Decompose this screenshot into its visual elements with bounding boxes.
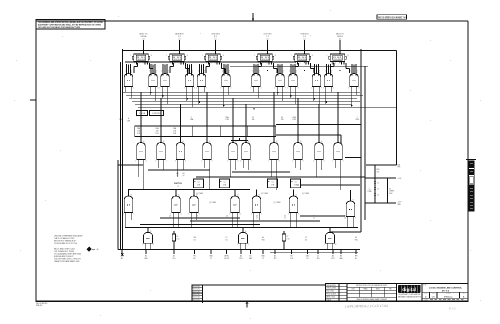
svg-text:E1: E1: [355, 258, 357, 260]
a-b label: [177, 172, 185, 177]
svg-text:CODE: CODE: [431, 293, 435, 295]
svg-text:ENG CHG ORDER A B2141 MAINDEC: ENG CHG ORDER A B2141 MAINDEC 7-64: [378, 15, 406, 19]
right edge volume label strip: [466, 160, 476, 211]
gate E28: [332, 141, 343, 190]
gate E11: [196, 65, 207, 105]
svg-text:D6: D6: [377, 183, 379, 185]
svg-text:REV: REV: [462, 293, 465, 295]
wire bus line 2: [126, 94, 363, 96]
wire switch band: [118, 49, 397, 250]
gate E15: [287, 65, 298, 105]
svg-text:1.5K: 1.5K: [176, 238, 179, 240]
delay box D4: [291, 179, 301, 188]
gate E20: [155, 141, 166, 170]
svg-text:P 1-2: P 1-2: [448, 307, 456, 311]
flip-flop E5: [291, 45, 313, 65]
svg-text:1TB: 1TB: [156, 131, 159, 133]
svg-text:CYCLE: CYCLE: [139, 113, 146, 115]
svg-text:CRG BUF: CRG BUF: [136, 59, 146, 61]
flip-flop E1: [130, 45, 152, 65]
svg-text:SIZE: SIZE: [424, 293, 427, 295]
svg-text:11: 11: [307, 62, 309, 64]
general notes text: [54, 235, 84, 264]
svg-text:D2: D2: [307, 258, 309, 260]
svg-text:D6: D6: [377, 195, 379, 197]
resistor R7: [282, 231, 289, 250]
svg-text:CRG BUF: CRG BUF: [172, 59, 182, 61]
svg-text:11: 11: [343, 62, 345, 64]
svg-text:2TB: 2TB: [223, 184, 226, 186]
gate E8: [147, 65, 158, 102]
gate E29: [123, 190, 134, 228]
delay box D2: [220, 179, 230, 188]
wire ff output bus b: [230, 65, 368, 67]
title block signature section: [326, 284, 348, 302]
wire band3 horizontals: [125, 216, 361, 232]
bottom-left form number text: [36, 303, 48, 307]
svg-text:TP6: TP6: [398, 167, 401, 169]
wire row2 pair bracket: [231, 138, 248, 141]
gate E7: [123, 65, 134, 99]
svg-text:Q5: Q5: [256, 215, 258, 217]
gate E9: [159, 65, 170, 105]
gate E27: [313, 141, 324, 177]
svg-text:C1: C1: [223, 181, 225, 183]
gate E35: [345, 190, 356, 228]
diode clamp network: [345, 107, 402, 206]
revision history box: [192, 285, 326, 303]
svg-text:THIS DRAWING AND SPECIFICATION: THIS DRAWING AND SPECIFICATIONS, HEREIN,…: [38, 21, 104, 24]
gate E13: [250, 65, 261, 99]
gate E12: [220, 65, 231, 108]
svg-text:NUMBER: NUMBER: [446, 293, 451, 295]
svg-text:100V: 100V: [389, 193, 392, 195]
bottom terminal labels: [120, 250, 357, 261]
left margin tick: [30, 99, 36, 101]
top-left notice box: [36, 20, 105, 30]
gate E26: [292, 141, 303, 170]
flip-flop E2: [166, 45, 188, 65]
svg-text:Q5: Q5: [196, 215, 198, 217]
switch label: [174, 183, 182, 188]
svg-text:CAPACITORS ARE MMFD GRL: CAPACITORS ARE MMFD GRL: [54, 260, 80, 263]
cycle control label: [137, 111, 164, 120]
delay box D3: [268, 179, 278, 188]
svg-text:B 1: B 1: [141, 118, 143, 120]
gate E22: [201, 141, 212, 190]
gate E24: [240, 141, 251, 170]
digital equipment corporation logo: [397, 284, 422, 302]
svg-text:Q5: Q5: [344, 215, 346, 217]
svg-text:15: 15: [284, 218, 286, 220]
gate E18: [348, 65, 359, 108]
svg-text:11: 11: [182, 62, 184, 64]
gate E33: [251, 190, 262, 228]
wire bus line 3: [129, 97, 357, 99]
bottom fold mark 1: [246, 302, 249, 308]
svg-text:ENG L.HILL: ENG L.HILL: [326, 291, 334, 293]
title block tolerance table: [347, 284, 397, 302]
row3 leg junction dots: [125, 227, 348, 228]
wire bus line 1: [123, 91, 361, 93]
svg-text:digital: digital: [402, 287, 416, 292]
bus tap labels: [119, 116, 360, 123]
gate E37: [237, 228, 249, 250]
handwritten catalogue note: [345, 304, 456, 311]
svg-text:C1: C1: [271, 181, 273, 183]
svg-text:( A-PL-M783-0-1 ) C-CS 17-: ( A-PL-M783-0-1 ) C-CS 17-64: [345, 304, 388, 309]
svg-text:DRG A: DRG A: [141, 35, 147, 38]
gate E31: [188, 190, 199, 228]
svg-text:2TB: 2TB: [271, 184, 274, 186]
svg-text:C1: C1: [294, 181, 296, 183]
delay box D1: [194, 179, 204, 188]
svg-text:1786: 1786: [292, 119, 296, 121]
svg-text:C1: C1: [262, 258, 264, 260]
svg-text:B4: B4: [291, 256, 293, 258]
svg-text:15: 15: [226, 218, 228, 220]
clock distribution line: [123, 50, 397, 52]
input signal labels: [140, 34, 148, 49]
wire bus line 4: [132, 100, 360, 102]
svg-text:TP3: TP3: [355, 256, 358, 258]
gate E21: [175, 141, 186, 177]
svg-text:D5: D5: [281, 117, 283, 119]
svg-text:CHK R.JONES: CHK R.JONES: [326, 288, 336, 290]
svg-text:750: 750: [377, 171, 380, 173]
svg-text:15: 15: [196, 218, 198, 220]
svg-text:B2: B2: [194, 258, 196, 260]
top revision label box: [377, 15, 407, 20]
svg-text:LMTEL: LMTEL: [224, 256, 229, 258]
svg-text:C4: C4: [389, 188, 391, 190]
svg-text:B1: B1: [183, 173, 185, 175]
svg-text:10: 10: [239, 213, 241, 215]
svg-text:11: 11: [146, 62, 148, 64]
svg-text:EQUIPMENT CORPORATION AND SHAL: EQUIPMENT CORPORATION AND SHALL NOT BE R…: [38, 23, 102, 26]
svg-text:1TB: 1TB: [281, 119, 284, 121]
svg-text:D 2: D 2: [303, 36, 306, 38]
svg-text:B 1: B 1: [214, 36, 217, 38]
gate E38: [324, 228, 336, 250]
svg-text:184: 184: [252, 119, 255, 121]
wire strip bottom extension: [276, 135, 341, 144]
svg-text:.01MFD: .01MFD: [389, 191, 394, 193]
svg-text:B5: B5: [145, 256, 147, 258]
wire bottom rail: [118, 250, 360, 253]
resistor R2: [172, 231, 179, 250]
pin labels under row3: [169, 215, 346, 219]
gate E32: [229, 190, 241, 228]
svg-text:15: 15: [313, 218, 315, 220]
svg-text:Q5: Q5: [169, 215, 171, 217]
gate E19: [135, 141, 146, 190]
svg-text:105: 105: [225, 239, 228, 241]
title block drawing title and number: [422, 284, 468, 302]
junction dots: [140, 61, 352, 228]
svg-text:1 1: 1 1: [177, 186, 179, 188]
gate E30: [170, 190, 181, 228]
svg-text:40: 40: [177, 175, 179, 177]
svg-text:TP2: TP2: [274, 258, 277, 260]
svg-text:105: 105: [305, 239, 308, 241]
svg-text:1TB: 1TB: [173, 131, 176, 133]
svg-text:DRG B: DRG B: [337, 36, 343, 38]
svg-text:Q5: Q5: [284, 215, 286, 217]
gate E23: [227, 141, 238, 177]
svg-text:CR,FB,D,ARE DCG-TO TRG: CR,FB,D,ARE DCG-TO TRG: [54, 242, 78, 245]
gate E14: [274, 65, 285, 102]
svg-text:CRG BUF: CRG BUF: [208, 59, 218, 61]
svg-text:FIN: FIN: [389, 289, 391, 291]
note pointer arrow: [87, 247, 99, 252]
svg-text:11: 11: [218, 62, 220, 64]
drawing border frame: [36, 21, 468, 302]
svg-text:105: 105: [193, 239, 196, 241]
svg-text:B3: B3: [340, 256, 342, 258]
svg-text:TP1: TP1: [193, 256, 196, 258]
svg-text:CONTROL: CONTROL: [152, 113, 161, 115]
svg-text:R2: R2: [176, 236, 178, 238]
svg-text:C2: C2: [317, 256, 319, 258]
svg-text:2TB: 2TB: [294, 184, 297, 186]
svg-text:DEC FORM NO: DEC FORM NO: [36, 303, 48, 305]
svg-text:R30: R30: [377, 169, 380, 171]
gate E10: [184, 65, 195, 108]
svg-text:CRG BUF: CRG BUF: [333, 59, 343, 61]
wire bus line 6: [138, 106, 397, 108]
flip-flop E6: [327, 45, 349, 65]
svg-text:SWITCH: SWITCH: [174, 183, 182, 185]
svg-text:2TB: 2TB: [197, 184, 200, 186]
svg-text:15: 15: [169, 218, 171, 220]
terminal star mark: [121, 253, 123, 256]
svg-text:15: 15: [344, 218, 346, 220]
svg-text:LOGIC MODEM LINE CONTROL: LOGIC MODEM LINE CONTROL: [429, 287, 463, 289]
svg-text:TITLE: TITLE: [423, 285, 427, 287]
svg-text:PROD D.BEST: PROD D.BEST: [326, 294, 336, 296]
row1 gate input drops: [125, 64, 358, 76]
wire strip top extension: [276, 124, 361, 126]
top centre fold mark: [252, 13, 255, 21]
gate E16: [311, 65, 322, 108]
svg-text:OR USED AS THE BASIS FOR MANUF: OR USED AS THE BASIS FOR MANUFACTURE: [38, 26, 81, 29]
svg-text:C1: C1: [197, 181, 199, 183]
svg-text:B1: B1: [250, 256, 252, 258]
svg-text:CRG BUF: CRG BUF: [297, 59, 307, 61]
svg-text:1.5K: 1.5K: [286, 238, 289, 240]
svg-text:C2: C2: [210, 258, 212, 260]
svg-text:TEE: TEE: [193, 237, 196, 239]
svg-text:11: 11: [270, 62, 272, 64]
connector strip J1: [135, 125, 276, 136]
gate E34: [288, 190, 299, 228]
svg-text:10: 10: [335, 244, 337, 246]
svg-text:40: 40: [183, 175, 185, 177]
svg-text:D6: D6: [377, 189, 379, 191]
svg-text:D 1: D 1: [178, 36, 181, 38]
flip-flop E4: [254, 45, 276, 65]
svg-text:C 1: C 1: [266, 36, 269, 38]
svg-text:1786: 1786: [225, 119, 229, 121]
svg-text:Q5: Q5: [313, 215, 315, 217]
svg-text:R7: R7: [286, 236, 288, 238]
misc value labels row4: [193, 236, 357, 241]
svg-text:Q5: Q5: [226, 215, 228, 217]
tbar flag labels: [196, 192, 309, 204]
bus to row2 vertical drops: [140, 92, 338, 144]
flip-flop E3: [202, 45, 224, 65]
ff pin jog wires: [134, 61, 350, 73]
svg-text:CRG BUF: CRG BUF: [260, 59, 270, 61]
wire ff output bus a: [125, 61, 296, 63]
gate E36: [142, 228, 154, 250]
gate E17: [323, 65, 334, 105]
svg-text:DIST: DIST: [425, 299, 428, 301]
wire bus line 5: [135, 103, 352, 105]
svg-text:15: 15: [256, 218, 258, 220]
svg-text:1: 1: [357, 117, 358, 119]
svg-text:1TB: 1TB: [137, 131, 140, 133]
gate E25: [268, 141, 279, 190]
svg-text:TP4: TP4: [317, 258, 320, 260]
